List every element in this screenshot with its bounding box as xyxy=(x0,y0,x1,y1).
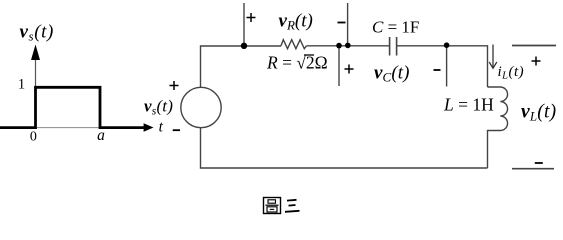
svg-text:R = √2Ω: R = √2Ω xyxy=(266,53,328,73)
svg-text:L = 1H: L = 1H xyxy=(443,95,494,115)
svg-text:a: a xyxy=(97,127,105,144)
svg-text:vs(t): vs(t) xyxy=(20,22,54,44)
svg-text:C = 1F: C = 1F xyxy=(372,18,419,37)
svg-text:vL(t): vL(t) xyxy=(521,102,556,124)
svg-text:iL(t): iL(t) xyxy=(498,64,525,82)
svg-text:t: t xyxy=(159,119,164,136)
svg-text:vC(t): vC(t) xyxy=(374,63,410,85)
svg-text:1: 1 xyxy=(18,77,25,93)
svg-text:vs(t): vs(t) xyxy=(144,97,173,118)
svg-text:0: 0 xyxy=(30,130,37,145)
svg-text:vR(t): vR(t) xyxy=(279,11,313,33)
